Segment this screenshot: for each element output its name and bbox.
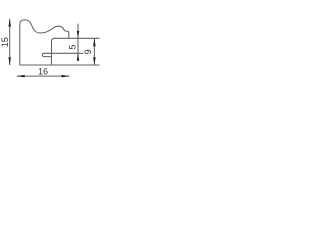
extension line at bar top for 5 [52,52,84,54]
spline tab bar [42,53,51,56]
arrow down (9 bottom, inside) [93,57,96,65]
rabbet inner edge with corner [52,38,56,65]
ledge extension line for 5/9 [69,37,100,39]
svg-text:9: 9 [83,49,93,54]
svg-text:16: 16 [38,66,48,76]
arrow down onto ledge (5) [77,31,80,38]
arrow up onto bar line (5) [77,53,80,60]
dimension 5 line [77,24,79,61]
arrow up (15 top) [8,19,11,27]
dimension 9 line [93,38,95,65]
arrow right (16) [62,75,70,78]
bottom edge + extension line for 9 [20,64,100,66]
arrow up (9 top, inside) [93,39,96,47]
dimension 15 line [9,19,11,65]
svg-text:15: 15 [0,37,10,47]
svg-text:5: 5 [67,44,77,49]
arrow left (16) [17,75,25,78]
arrow down (15 bottom) [8,57,11,65]
moulding profile outline [20,20,69,65]
dimension 16 line [17,75,70,77]
